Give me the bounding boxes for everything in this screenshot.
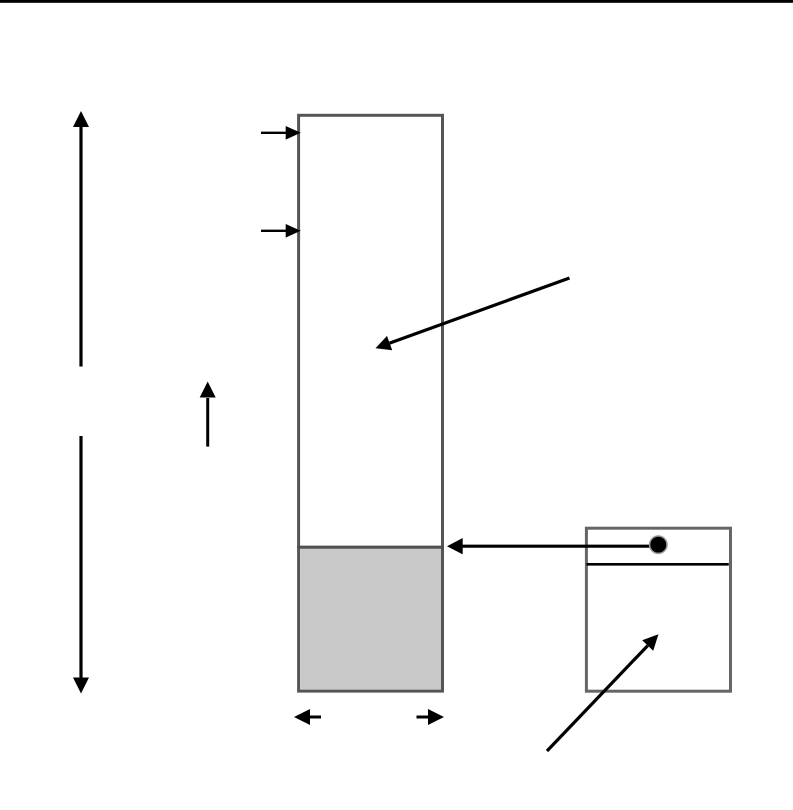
width arrow right shaft xyxy=(417,716,429,719)
small up arrow shaft xyxy=(206,398,209,447)
tube outline xyxy=(299,115,443,691)
lower pointer arrow shaft (to detail box) xyxy=(547,646,648,751)
horizontal arrow shaft (ball to liquid surface) xyxy=(462,545,658,548)
inlet arrow 2 head xyxy=(286,224,301,238)
long pointer arrow shaft (to tube interior) xyxy=(390,278,570,343)
top page border line xyxy=(0,0,793,3)
dimension arrow, lower arrowhead xyxy=(73,678,89,694)
liquid surface line xyxy=(297,546,444,549)
dimension arrow, lower shaft xyxy=(79,436,82,679)
detail box outline xyxy=(586,528,730,691)
lower pointer arrow head xyxy=(642,634,658,651)
long pointer arrow head xyxy=(376,336,393,350)
ball (dot) xyxy=(650,536,667,553)
dimension arrow, upper shaft xyxy=(79,126,82,367)
liquid fill xyxy=(300,549,441,690)
width arrow left head xyxy=(294,709,310,725)
width arrow right head xyxy=(428,709,444,725)
small up arrow head xyxy=(200,382,216,398)
inlet arrow 1 head xyxy=(286,126,301,140)
inlet arrow 1 shaft xyxy=(261,132,287,134)
inlet arrow 2 shaft xyxy=(261,230,287,232)
width arrow left shaft xyxy=(309,716,321,719)
dimension arrow (tube height), upper arrowhead xyxy=(73,111,89,127)
detail box inner line xyxy=(587,563,729,566)
horizontal arrow head xyxy=(447,538,463,554)
